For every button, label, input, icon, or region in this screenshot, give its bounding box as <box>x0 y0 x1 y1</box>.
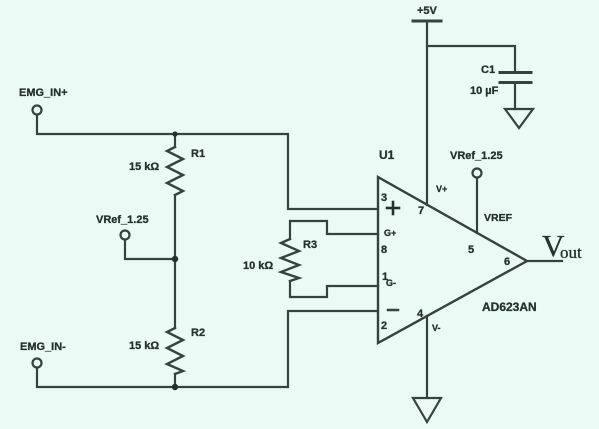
svg-text:3: 3 <box>381 192 387 204</box>
svg-text:4: 4 <box>417 308 424 320</box>
svg-text:EMG_IN+: EMG_IN+ <box>19 87 68 99</box>
svg-text:V-: V- <box>432 323 441 333</box>
svg-text:VRef_1.25: VRef_1.25 <box>96 214 149 226</box>
svg-text:6: 6 <box>504 256 510 268</box>
svg-text:10 kΩ: 10 kΩ <box>243 260 273 272</box>
svg-text:8: 8 <box>381 244 387 256</box>
svg-text:G+: G+ <box>384 228 396 238</box>
svg-text:VREF: VREF <box>484 212 513 224</box>
svg-text:10 µF: 10 µF <box>470 85 499 97</box>
svg-text:2: 2 <box>381 320 387 332</box>
svg-text:VRef_1.25: VRef_1.25 <box>450 150 503 162</box>
svg-text:V+: V+ <box>436 184 447 194</box>
svg-text:5: 5 <box>468 244 474 256</box>
svg-text:7: 7 <box>418 205 424 217</box>
svg-text:+5V: +5V <box>417 5 438 17</box>
svg-text:EMG_IN-: EMG_IN- <box>20 341 66 353</box>
svg-text:R1: R1 <box>191 148 205 160</box>
svg-text:15 kΩ: 15 kΩ <box>129 340 159 352</box>
svg-text:R2: R2 <box>191 327 205 339</box>
svg-text:out: out <box>560 243 582 262</box>
svg-text:G-: G- <box>386 278 396 288</box>
svg-text:C1: C1 <box>481 64 495 76</box>
svg-text:15 kΩ: 15 kΩ <box>129 161 159 173</box>
svg-text:AD623AN: AD623AN <box>482 300 537 314</box>
svg-text:U1: U1 <box>379 148 395 162</box>
svg-text:R3: R3 <box>303 239 317 251</box>
